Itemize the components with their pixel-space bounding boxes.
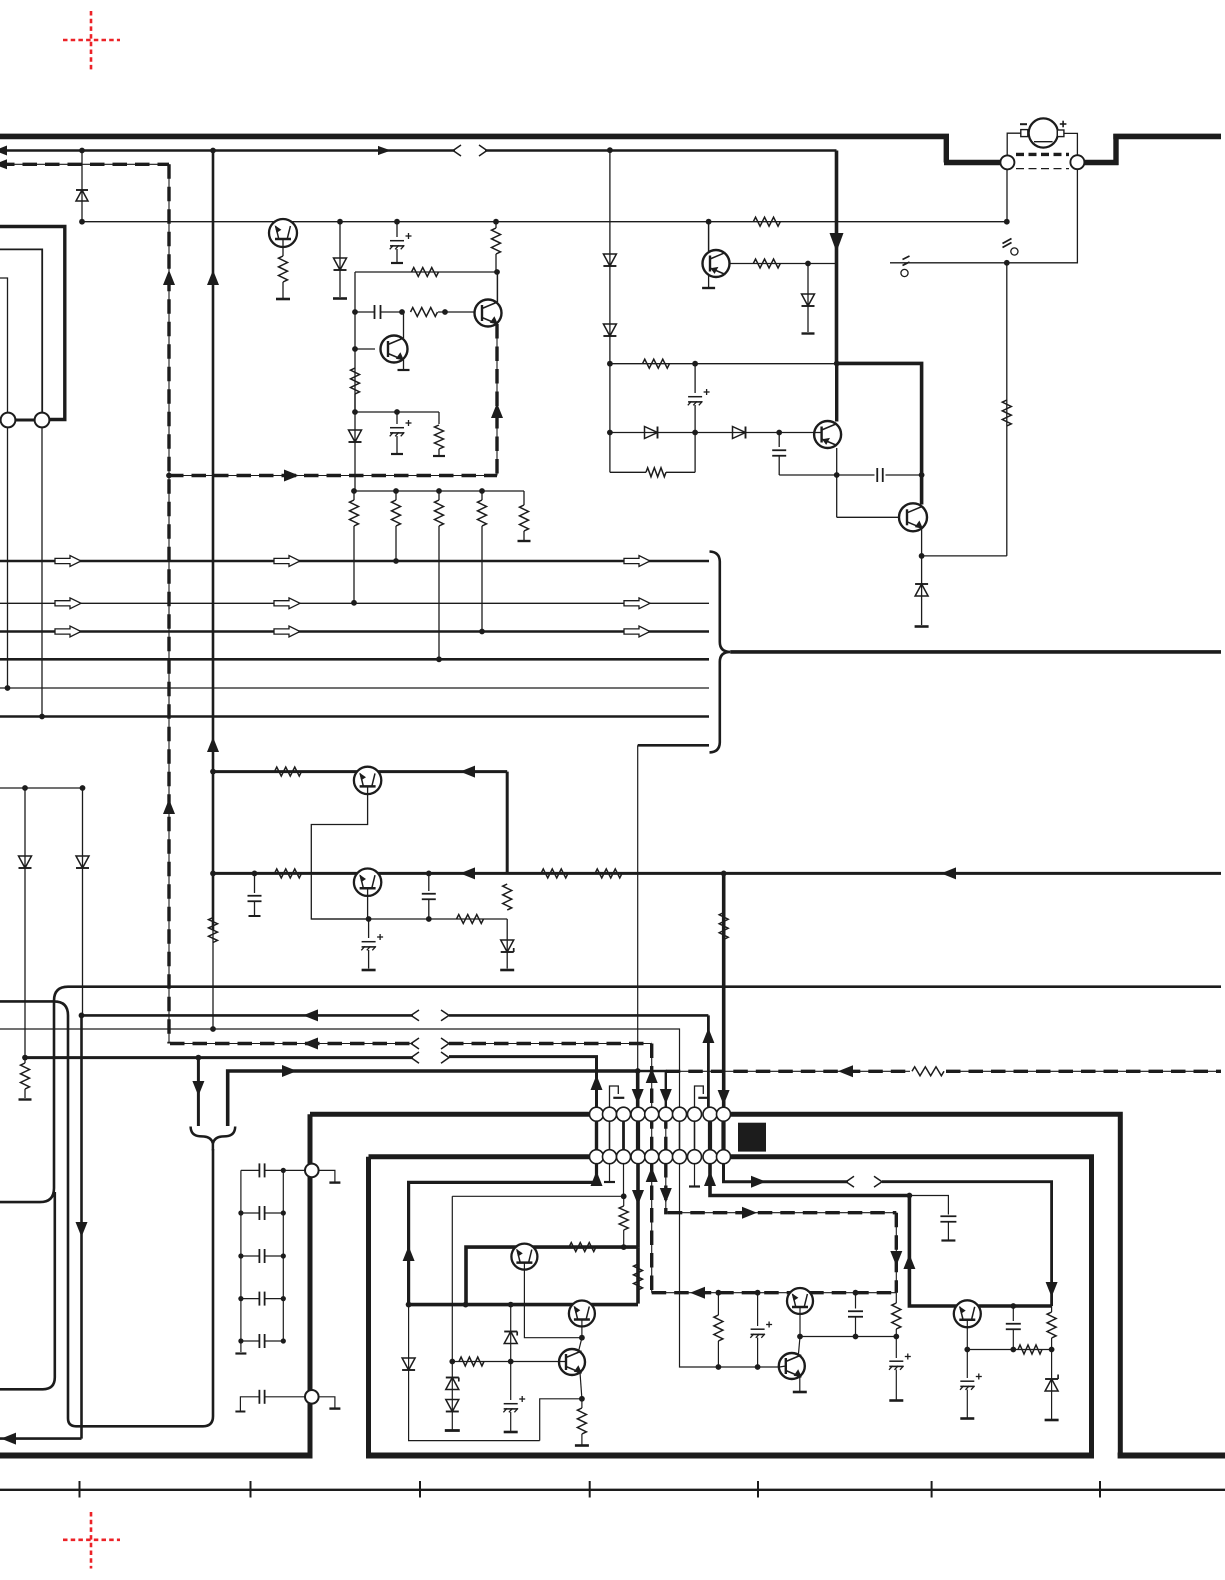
wire cap to node bbox=[779, 474, 837, 476]
resistor R6 bbox=[351, 368, 360, 412]
motor M1 terminal right bbox=[1057, 130, 1064, 137]
arrow down col6 bbox=[660, 1089, 672, 1104]
wire y475 cap link bbox=[837, 474, 922, 476]
wire thick step down bbox=[944, 134, 949, 163]
bus line 2 bbox=[0, 602, 709, 604]
wire y873 bbox=[213, 872, 1221, 875]
connector pin row1-3 bbox=[617, 1107, 631, 1121]
wire x610 chain bbox=[609, 151, 611, 364]
capacitor C13 bank bbox=[241, 1249, 283, 1263]
wire Q12 emitter bbox=[799, 1307, 801, 1337]
label plus bbox=[1060, 121, 1067, 128]
arrow left y873 b bbox=[941, 867, 956, 879]
wire bus y150 bbox=[0, 149, 837, 152]
resistor R2 on y221 bbox=[753, 217, 780, 226]
resistor R29 bbox=[634, 1264, 643, 1290]
connector pin P1 bbox=[1000, 155, 1014, 169]
node dot dashed x855 bbox=[853, 1290, 859, 1296]
transistor Q1 bbox=[269, 219, 297, 247]
diode D15 bbox=[446, 1400, 459, 1412]
wire box outer left bbox=[308, 1114, 313, 1455]
capacitor C12 bank bbox=[241, 1206, 283, 1220]
resistor R11 bbox=[435, 491, 444, 659]
node dot x610 y150 bbox=[607, 147, 613, 153]
zener D12 bbox=[501, 919, 514, 969]
arrow up col1 bbox=[591, 1075, 603, 1090]
wire Q4 emitter bbox=[836, 448, 838, 475]
capacitor C11 bank bbox=[241, 1163, 283, 1177]
node dot x25 y788 bbox=[22, 785, 28, 791]
wire dashed col5 upper bbox=[651, 1044, 653, 1109]
wire thin y1029 bbox=[0, 1029, 680, 1108]
node dot x355 y412 bbox=[352, 409, 358, 415]
transistor Q14 bbox=[954, 1300, 981, 1327]
wire thick top border right bbox=[1113, 134, 1221, 140]
wire pin P4 down bbox=[41, 428, 43, 717]
ground C20 bbox=[889, 1399, 903, 1402]
connector pin row1-7 bbox=[673, 1107, 687, 1121]
node dot P4 bbox=[39, 714, 45, 720]
wire Q7 base path bbox=[311, 786, 368, 919]
wire line C exit bbox=[0, 1437, 82, 1440]
wire col8 inter bbox=[694, 1114, 696, 1157]
node dot x408 y1304 bbox=[406, 1302, 412, 1308]
zener D16 bbox=[504, 1305, 517, 1362]
wire thick y1071 bbox=[228, 1071, 638, 1126]
wire box inner left bbox=[366, 1157, 371, 1456]
wire Q8 emitter bbox=[367, 888, 369, 919]
arrow up dashed x497 bbox=[491, 403, 503, 418]
wire y1196 bbox=[452, 1195, 623, 1197]
node dot x1051 y1349 bbox=[1049, 1347, 1055, 1353]
node dot bank4 bbox=[479, 488, 485, 494]
wire bank row1 to pin bbox=[283, 1169, 305, 1171]
connector pin row2-7 bbox=[673, 1150, 687, 1164]
wire col3 inter bbox=[622, 1114, 625, 1157]
wire col2 inter bbox=[609, 1114, 611, 1157]
capacitor C19 bbox=[848, 1293, 863, 1337]
arrow up col9 bbox=[704, 1171, 716, 1186]
label minus bbox=[1020, 123, 1027, 125]
ground C9 bbox=[362, 969, 376, 972]
diode D11 bbox=[802, 264, 815, 333]
arrow up x213 a bbox=[207, 270, 219, 285]
bus line 4 bbox=[0, 658, 709, 661]
arrow left y772 bbox=[460, 766, 475, 778]
transistor Q13 bbox=[779, 1353, 805, 1379]
node dot x695 y432 bbox=[692, 430, 698, 436]
node dot x428 y873 bbox=[426, 871, 432, 877]
node dot Q11 emitter bbox=[579, 1396, 585, 1402]
node dot x896 y1336 bbox=[893, 1334, 899, 1340]
node dot R11 bbox=[436, 656, 442, 662]
wire bank right vertical bbox=[282, 1170, 284, 1341]
transistor Q12 bbox=[787, 1288, 813, 1314]
resistor R13 bbox=[520, 491, 529, 540]
node dot x708 y221 bbox=[706, 219, 712, 225]
wire y556 bbox=[922, 555, 1007, 557]
wire y363 bbox=[610, 363, 837, 365]
connector pin row1-8 bbox=[688, 1107, 702, 1121]
break marks y150 bbox=[453, 145, 487, 156]
block arrow b line2 bbox=[274, 598, 300, 609]
connector pin row1-9 bbox=[703, 1107, 717, 1121]
node dot x402 y312 bbox=[399, 309, 405, 315]
brace gather bbox=[191, 1127, 236, 1151]
arrow down col6 lower bbox=[660, 1188, 672, 1203]
wire col5 inter dashed bbox=[651, 1114, 653, 1157]
node dot x610 y363 bbox=[607, 361, 613, 367]
arrow down col10 bbox=[718, 1090, 730, 1105]
arrow right y1071 bbox=[282, 1065, 297, 1077]
bus line 5 bbox=[0, 687, 709, 689]
resistor R18 bbox=[753, 259, 780, 268]
wire thin frame b bbox=[0, 249, 42, 413]
node dot bank left 1 bbox=[238, 1210, 243, 1215]
key symbol col8 bbox=[695, 1086, 710, 1108]
node dot bank left 4 bbox=[238, 1338, 243, 1343]
wire y412 bbox=[355, 411, 439, 413]
wire x408 lower bbox=[409, 1305, 540, 1441]
brace bus right bbox=[710, 552, 731, 753]
ground R31 bbox=[575, 1444, 589, 1447]
node dot x82 y788 bbox=[80, 785, 86, 791]
arrow up dashed x169 a bbox=[163, 270, 175, 285]
arrow down col4 lower bbox=[632, 1190, 644, 1205]
wire col10 inter bbox=[721, 1114, 725, 1157]
transistor Q3 bbox=[381, 336, 408, 363]
transistor Q8 bbox=[354, 869, 381, 896]
wire box outer bottom right bbox=[1118, 1453, 1225, 1459]
registration cross bottom-left bbox=[63, 1512, 120, 1569]
ruler tick 5 bbox=[757, 1481, 759, 1498]
block arrow a line2 bbox=[55, 598, 81, 609]
node dot x921 y556 bbox=[919, 553, 925, 559]
node dot R9 bbox=[351, 600, 357, 606]
diode D2 bbox=[334, 222, 347, 297]
block arrow a line1 bbox=[55, 556, 81, 567]
wire thick frame top bbox=[0, 227, 65, 420]
wire Q1 emitter bbox=[282, 239, 284, 257]
node dot line C corner bbox=[79, 1013, 85, 1019]
arrow left line C bbox=[303, 1009, 318, 1021]
wire Q11 emitter return bbox=[540, 1399, 582, 1441]
connector pin row2-3 bbox=[617, 1150, 631, 1164]
arrow down x836 bbox=[830, 233, 844, 252]
node dot x25 y1057 bbox=[22, 1055, 28, 1061]
arrow up dashed x169 b bbox=[163, 799, 175, 814]
arrow left dashed y1292 bbox=[690, 1287, 705, 1299]
wire col5 lower dashed bbox=[651, 1163, 653, 1293]
resistor R15 bbox=[643, 359, 670, 368]
wire Q10 emitter bbox=[581, 1319, 583, 1338]
node dot x198 y1057 bbox=[196, 1055, 202, 1061]
wire dashed link upper bbox=[1016, 153, 1069, 156]
arrow down x198 bbox=[192, 1081, 204, 1096]
node dot R12 bbox=[479, 629, 485, 635]
arrow down col4 bbox=[632, 1089, 644, 1104]
wire Q4 base bbox=[815, 432, 822, 434]
arrow up x213 b bbox=[207, 737, 219, 752]
resistor R24 bbox=[503, 884, 512, 910]
transistor Q5 bbox=[899, 503, 927, 531]
node dot x452 y1361 bbox=[449, 1359, 455, 1365]
capacitor C3 bbox=[390, 412, 412, 453]
arrow right dashed y1212 bbox=[742, 1207, 757, 1219]
capacitor C8 bbox=[422, 873, 436, 919]
diode D6 bbox=[603, 254, 616, 266]
wire thick top right corner bbox=[837, 363, 922, 504]
wire line A lower hook bbox=[0, 1192, 55, 1389]
node dot dashed y475 bbox=[166, 473, 172, 479]
zener D1 bbox=[76, 151, 88, 222]
break symbol y263 bbox=[901, 256, 911, 277]
resistor R7 bbox=[435, 412, 444, 455]
node dot x808 y263 bbox=[805, 261, 811, 267]
node dot x213 y772 bbox=[210, 769, 216, 775]
wire Q4 collector thick bbox=[835, 364, 838, 422]
wire osc left x355 bbox=[354, 272, 356, 412]
wire Q6 emitter bbox=[708, 276, 710, 287]
wire y788 bbox=[0, 787, 83, 789]
ruler tick 1 bbox=[79, 1481, 81, 1498]
break y1181 bbox=[846, 1176, 882, 1187]
node dot x921 y475 bbox=[919, 472, 925, 478]
ground D10 bbox=[915, 625, 929, 628]
node dot bank right 1 bbox=[281, 1210, 286, 1215]
wire Q3 emitter bbox=[403, 360, 405, 369]
resistor R25 bbox=[719, 913, 728, 940]
node dot x718 y1367 bbox=[716, 1364, 722, 1370]
wire IC row1 right bbox=[730, 1114, 1121, 1455]
node dot x213 y873 bbox=[210, 871, 216, 877]
wire col1 lower bbox=[409, 1163, 597, 1305]
wire Q6 top bbox=[708, 222, 710, 251]
connector pin row1-2 bbox=[603, 1107, 617, 1121]
wire dashed x169 bbox=[168, 164, 170, 1043]
break marks line C bbox=[411, 1010, 449, 1021]
node dot bank right 3 bbox=[281, 1296, 286, 1301]
connector pin row2-5 bbox=[645, 1150, 659, 1164]
node dot x213 y1029 bbox=[210, 1026, 216, 1032]
diode D4 bbox=[19, 788, 32, 1058]
transistor Q6 bbox=[703, 250, 730, 277]
capacitor C7 bbox=[248, 873, 262, 916]
node dot x213 y150 bbox=[210, 148, 216, 154]
node dot bank left 3 bbox=[238, 1296, 243, 1301]
break y1057 bbox=[411, 1052, 449, 1063]
node dot x723 y873 bbox=[721, 871, 727, 877]
connector pin row1-1 bbox=[590, 1107, 604, 1121]
wire y919 bbox=[311, 918, 507, 920]
diode D7 bbox=[603, 324, 616, 336]
diode D9 bbox=[733, 427, 746, 439]
wire R1 to ground bbox=[282, 282, 284, 298]
arrow up x909 bbox=[903, 1254, 915, 1269]
node dot Q12 emitter bbox=[797, 1334, 803, 1340]
wire thick lower shelf left bbox=[944, 160, 1001, 165]
wire dashed y164 bbox=[0, 163, 169, 165]
wire IC row2 right bbox=[730, 1157, 1092, 1456]
arrow right y1181 bbox=[751, 1176, 766, 1188]
wire line A bbox=[0, 987, 1221, 1202]
capacitor C14 bank bbox=[241, 1292, 283, 1306]
node dot x82 y221 bbox=[79, 219, 85, 225]
wire line C right bbox=[449, 1014, 708, 1017]
resistor R30 bbox=[459, 1357, 484, 1366]
node dot bank right 2 bbox=[281, 1253, 286, 1258]
resistor R19 bbox=[275, 767, 302, 776]
resistor R26 on dashed bbox=[912, 1067, 944, 1076]
arrow up x408 bbox=[403, 1246, 415, 1261]
wire stub x198 bbox=[197, 1058, 200, 1126]
registration cross top-left bbox=[63, 11, 120, 70]
wire Q11 emitter bbox=[580, 1373, 582, 1399]
connector pin row1-4 bbox=[631, 1107, 645, 1121]
bus line 1 bbox=[0, 560, 709, 563]
wire pin P1 down bbox=[1006, 169, 1008, 221]
wire y263 line bbox=[729, 263, 837, 265]
node dot bank1 bbox=[351, 488, 357, 494]
capacitor C6 bbox=[877, 468, 883, 482]
wire box inner bottom bbox=[366, 1453, 1094, 1459]
wire col9 lower bbox=[710, 1163, 1052, 1306]
capacitor C22 bbox=[960, 1350, 982, 1418]
wire dashed y1212 bbox=[668, 1212, 897, 1214]
node dot R10 bbox=[393, 558, 399, 564]
wire Q9 emitter path bbox=[524, 1262, 582, 1338]
zener D14 bbox=[446, 1378, 459, 1390]
ground D17 bbox=[1045, 1419, 1059, 1422]
node dot x836 y363 bbox=[834, 361, 840, 367]
wire col10 lower bbox=[724, 1163, 849, 1182]
wire y1349 bbox=[967, 1349, 1051, 1351]
capacitor C16 bank bbox=[235, 1390, 305, 1412]
wire thick y1304 bbox=[409, 1303, 638, 1307]
wire dashed x497 bbox=[496, 324, 498, 476]
wire dashed y1043 right bbox=[449, 1043, 652, 1045]
resistor R22 bbox=[595, 869, 622, 878]
node dot bank right 4 bbox=[281, 1338, 286, 1343]
arrow down line C bbox=[76, 1222, 88, 1237]
node dot x340 y221 bbox=[337, 219, 343, 225]
wire line B bbox=[0, 1001, 213, 1426]
wire x507 drop bbox=[506, 772, 509, 874]
wire IC row1 left bbox=[310, 1112, 591, 1117]
resistor R27 bbox=[619, 1196, 628, 1247]
wire Q5 emitter bbox=[921, 529, 923, 556]
ruler tick 7 bbox=[1099, 1481, 1101, 1498]
key symbol col2 bbox=[610, 1086, 625, 1108]
wire thick step up bbox=[1113, 134, 1118, 165]
ground x452 bbox=[445, 1429, 460, 1432]
wire dashed y475 bbox=[169, 475, 497, 477]
connector pin P3 bbox=[1, 413, 16, 428]
node dot x757 y1367 bbox=[755, 1364, 761, 1370]
ground D2 bbox=[333, 297, 347, 300]
ground Q1 bbox=[276, 298, 290, 301]
wire line C down bbox=[80, 1015, 83, 1438]
wire pin P3 down bbox=[7, 428, 9, 689]
wire y1336 bbox=[800, 1336, 896, 1338]
resistor R31 bbox=[577, 1399, 586, 1445]
wire y263 right bbox=[890, 262, 1007, 264]
resistor R16 bbox=[610, 433, 695, 477]
node dot x496 y221 bbox=[493, 219, 499, 225]
capacitor C10 bbox=[909, 1196, 956, 1241]
wire col10 feed bbox=[722, 873, 726, 1108]
ground C17 bbox=[504, 1431, 518, 1434]
node dot Q10 emitter bbox=[579, 1335, 585, 1341]
bus line 3 bbox=[0, 630, 709, 633]
wire col6 inter dashed bbox=[665, 1114, 667, 1157]
node dot x355 y312 bbox=[352, 309, 358, 315]
resistor R28 bbox=[569, 1243, 596, 1252]
node dot x1013 y1349 bbox=[1010, 1347, 1016, 1353]
node dot x836 y475 bbox=[834, 472, 840, 478]
ground col8 bbox=[689, 1163, 700, 1187]
motor M1 body bbox=[1029, 118, 1058, 147]
node dot Q14 emitter bbox=[964, 1347, 970, 1353]
arrow right y150 bbox=[378, 146, 391, 155]
ground bank left bbox=[235, 1352, 246, 1354]
wire col4 lower bbox=[636, 1163, 640, 1247]
wire line C drop to pin bbox=[707, 1015, 710, 1108]
chassis tap P6 bbox=[319, 1397, 341, 1409]
node dot x1013 y1306 bbox=[1010, 1303, 1016, 1309]
ruler tick 3 bbox=[419, 1481, 421, 1498]
resistor R8 on x213 bbox=[209, 918, 218, 943]
resistor R4 bbox=[412, 268, 439, 277]
wire Q3 base bbox=[355, 348, 375, 350]
ruler baseline bbox=[0, 1489, 1225, 1491]
resistor R34 bbox=[1018, 1345, 1042, 1354]
resistor R14 bbox=[21, 1058, 30, 1098]
ground R13 bbox=[518, 540, 531, 542]
wire col3 lower bbox=[623, 1163, 625, 1196]
arrow down x1051 bbox=[1046, 1282, 1058, 1297]
wire line C left bbox=[82, 1014, 414, 1017]
wire x1006 chain bbox=[1006, 263, 1008, 556]
connector pin row2-10 bbox=[717, 1150, 731, 1164]
ruler tick 6 bbox=[931, 1481, 933, 1498]
capacitor C9 bbox=[361, 919, 383, 969]
node dot bank right 0 bbox=[281, 1168, 286, 1173]
diode D13 bbox=[402, 1358, 415, 1370]
wire col7 lower bbox=[680, 1163, 780, 1367]
wire thick drop x836 bbox=[835, 151, 839, 364]
connector pin row2-4 bbox=[631, 1150, 645, 1164]
IC index square bbox=[738, 1123, 766, 1152]
ground R14 bbox=[19, 1098, 32, 1100]
arrow left dashed y1071 bbox=[838, 1065, 853, 1077]
node dot bank3 bbox=[436, 488, 442, 494]
wire col9 inter bbox=[708, 1114, 712, 1157]
wire dashed y1071 right bbox=[666, 1070, 1221, 1072]
wire dashed y1043 bbox=[170, 1043, 413, 1045]
node dot col3 bbox=[621, 1193, 627, 1199]
ground C3 bbox=[391, 453, 403, 455]
resistor R1 bbox=[279, 256, 288, 282]
node dot x368 y919 bbox=[366, 916, 372, 922]
arrow up line C bbox=[702, 1028, 714, 1043]
connector pin row2-1 bbox=[590, 1150, 604, 1164]
ground C1 bbox=[391, 262, 403, 264]
arrow left y873 a bbox=[460, 867, 475, 879]
wire motor right lead bbox=[1064, 133, 1078, 155]
resistor R5 bbox=[411, 308, 475, 317]
wire Q13 base bbox=[779, 1366, 785, 1367]
